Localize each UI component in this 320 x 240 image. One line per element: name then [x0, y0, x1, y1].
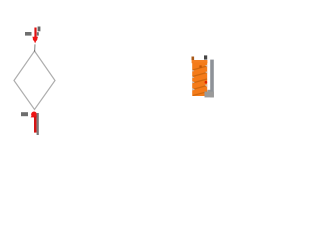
coil: dark orange dot top-left	[192, 57, 195, 61]
coil body column	[192, 63, 207, 97]
gray dash bottom (H label)	[21, 112, 28, 116]
gray dash top (H label)	[25, 32, 32, 36]
gray patch lower-right of coil	[207, 90, 210, 95]
coil edge notch left 4 (big)	[192, 88, 195, 91]
red arrow top head	[32, 37, 38, 44]
gray tick top-right	[38, 27, 41, 32]
coil: top bar	[192, 60, 208, 63]
coil edge notch left 2	[192, 76, 194, 78]
coil edge notch right 2	[205, 71, 207, 73]
coil: dark patch top-right	[204, 55, 207, 59]
coil edge notch left 1	[192, 70, 194, 72]
red arrow top shaft	[34, 28, 36, 39]
bond top	[34, 44, 36, 51]
red blob bottom	[31, 112, 37, 118]
red dot on coil	[205, 81, 208, 84]
red blob top	[33, 37, 38, 42]
coil edge notch right 3 (big)	[205, 84, 208, 87]
coil dark specks	[199, 65, 201, 67]
red arrow bottom shaft	[34, 117, 37, 133]
gray foot under coil	[205, 92, 214, 98]
coil winding shadow lines	[193, 66, 208, 95]
coil edge notch left 3 (big)	[192, 81, 195, 84]
gray band bottom	[37, 113, 39, 135]
gray band right of coil	[210, 60, 214, 98]
red arrow bottom head	[31, 112, 39, 118]
diamond outline	[14, 51, 55, 110]
coil edge notch right 1	[205, 65, 207, 67]
gray tick right of shaft	[37, 32, 39, 35]
